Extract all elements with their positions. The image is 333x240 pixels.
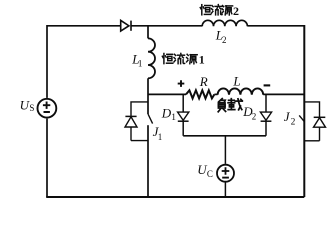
svg-text:1: 1 [158, 132, 163, 142]
svg-text:2: 2 [252, 112, 256, 122]
svg-text:C: C [207, 169, 213, 179]
svg-text:1: 1 [199, 53, 205, 67]
svg-text:2: 2 [291, 118, 296, 128]
svg-text:L: L [232, 73, 240, 88]
svg-text:1: 1 [171, 113, 176, 123]
svg-text:1: 1 [138, 58, 143, 68]
svg-text:2: 2 [222, 35, 227, 45]
svg-text:D: D [161, 105, 172, 120]
svg-text:R: R [199, 74, 208, 89]
svg-text:S: S [29, 103, 34, 113]
svg-text:2: 2 [233, 4, 239, 18]
